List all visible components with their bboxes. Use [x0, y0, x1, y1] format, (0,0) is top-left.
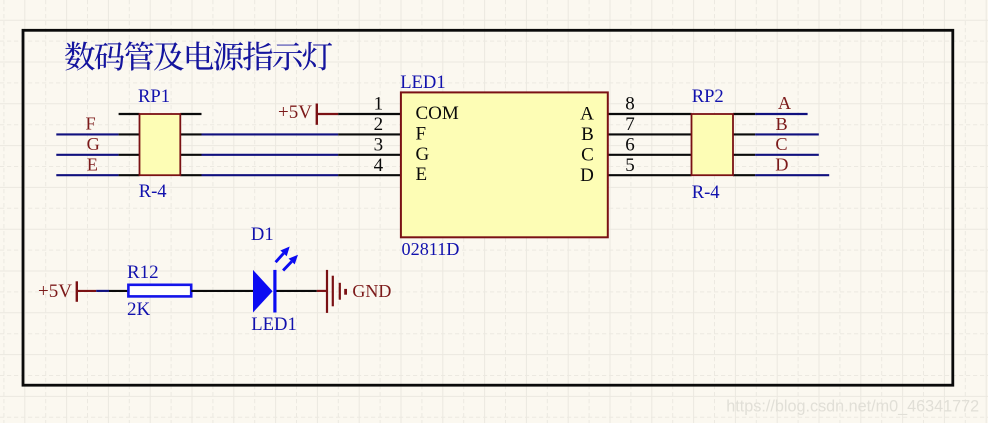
svg-text:F: F — [416, 123, 427, 144]
svg-text:E: E — [87, 155, 98, 175]
svg-text:5: 5 — [625, 155, 635, 176]
svg-text:4: 4 — [374, 155, 384, 176]
svg-text:6: 6 — [625, 134, 635, 155]
svg-text:1: 1 — [374, 94, 384, 115]
svg-text:2: 2 — [374, 114, 384, 135]
svg-text:7: 7 — [625, 114, 635, 135]
svg-text:+5V: +5V — [278, 102, 312, 123]
svg-text:G: G — [416, 144, 430, 165]
svg-text:2K: 2K — [127, 299, 151, 320]
svg-text:A: A — [580, 104, 594, 125]
svg-text:3: 3 — [374, 135, 384, 156]
svg-text:A: A — [778, 93, 792, 113]
svg-text:R12: R12 — [127, 262, 159, 283]
svg-text:F: F — [86, 113, 96, 133]
svg-text:B: B — [581, 124, 594, 145]
svg-text:D1: D1 — [251, 224, 274, 245]
svg-text:GND: GND — [352, 281, 391, 301]
svg-text:02811D: 02811D — [402, 239, 460, 259]
svg-text:C: C — [581, 144, 594, 165]
svg-text:RP1: RP1 — [138, 86, 170, 107]
svg-text:R-4: R-4 — [692, 182, 720, 203]
svg-text:E: E — [416, 164, 428, 185]
svg-text:https://blog.csdn.net/m0_46341: https://blog.csdn.net/m0_46341772 — [726, 397, 979, 415]
svg-text:LED1: LED1 — [400, 72, 445, 93]
svg-text:G: G — [87, 134, 100, 154]
svg-text:C: C — [775, 134, 787, 154]
svg-text:R-4: R-4 — [139, 181, 167, 202]
svg-text:8: 8 — [625, 94, 635, 115]
svg-text:D: D — [775, 155, 788, 175]
svg-text:B: B — [776, 114, 788, 134]
svg-text:+5V: +5V — [38, 281, 72, 302]
svg-text:RP2: RP2 — [692, 86, 724, 107]
svg-text:COM: COM — [416, 103, 459, 124]
svg-text:LED1: LED1 — [251, 314, 296, 335]
svg-text:D: D — [580, 165, 594, 186]
